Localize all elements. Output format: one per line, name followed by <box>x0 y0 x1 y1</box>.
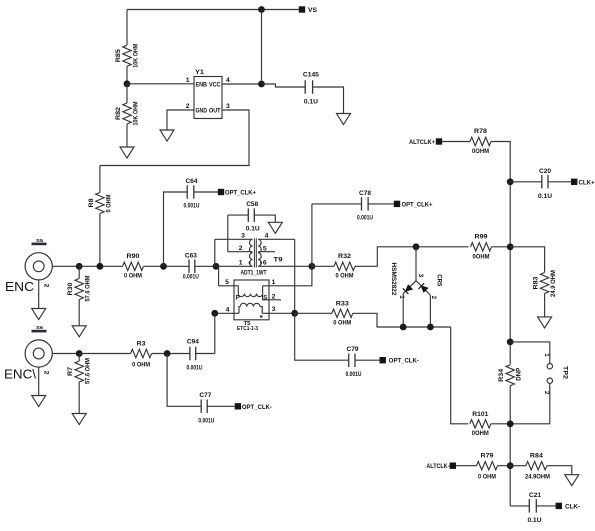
wire to R83 <box>510 247 544 273</box>
svg-text:1: 1 <box>543 353 550 357</box>
svg-text:OPT_CLK-: OPT_CLK- <box>389 358 419 365</box>
wire ENC stem <box>38 280 40 309</box>
svg-text:0 OHM: 0 OHM <box>132 361 150 368</box>
svg-text:R32: R32 <box>338 253 351 260</box>
svg-text:OPT_CLK+: OPT_CLK+ <box>225 190 256 197</box>
svg-text:R83: R83 <box>533 276 540 289</box>
svg-text:C64: C64 <box>186 178 198 185</box>
svg-text:57.6 OHM: 57.6 OHM <box>85 275 92 301</box>
svg-text:1: 1 <box>398 295 405 299</box>
svg-text:R101: R101 <box>472 411 488 418</box>
junction Y1 pin4 <box>258 81 265 88</box>
svg-text:C63: C63 <box>185 252 197 259</box>
svg-text:0 OHM: 0 OHM <box>105 194 112 212</box>
wire C21 riser <box>510 505 529 507</box>
wire R33 to CR5 bottom <box>353 313 451 327</box>
wire C58 left lead <box>228 214 249 216</box>
junction T9 input node <box>213 263 220 270</box>
svg-text:2: 2 <box>43 371 50 375</box>
svg-text:ADT1_1WT: ADT1_1WT <box>241 269 268 276</box>
wire ENC-bar stem <box>38 367 40 395</box>
ground ENC-bar <box>32 396 46 407</box>
svg-text:TP2: TP2 <box>562 366 569 379</box>
capacitor C79 <box>346 346 362 378</box>
ground R7 <box>72 414 86 425</box>
svg-text:C79: C79 <box>347 346 359 353</box>
wire R84 to ground <box>547 466 572 475</box>
svg-text:R7: R7 <box>67 367 74 376</box>
svg-text:C94: C94 <box>187 339 199 346</box>
svg-text:C20: C20 <box>539 168 551 175</box>
connector S5 ENC <box>5 238 52 294</box>
svg-text:2: 2 <box>239 245 243 252</box>
transformer T9 <box>241 238 284 276</box>
svg-text:VCC: VCC <box>209 81 221 88</box>
junction R79 tap <box>507 462 514 469</box>
ground ENC <box>32 309 46 320</box>
resistor R85 <box>115 43 140 67</box>
wire T9 pin3 riser <box>214 239 216 266</box>
pin 3 T5 lead <box>262 306 295 313</box>
svg-text:4: 4 <box>265 233 269 240</box>
svg-text:ENC\: ENC\ <box>4 367 36 382</box>
resistor R7 <box>67 358 92 384</box>
svg-text:0OHM: 0OHM <box>473 253 490 260</box>
svg-text:C58: C58 <box>246 201 258 208</box>
svg-text:R79: R79 <box>481 452 494 459</box>
wire top VS rail <box>127 9 299 11</box>
svg-text:2: 2 <box>430 296 437 300</box>
svg-text:0 OHM: 0 OHM <box>333 320 351 327</box>
oscillator Y1 <box>194 69 222 119</box>
svg-text:0.1U: 0.1U <box>246 226 260 233</box>
resistor R83 <box>533 270 558 297</box>
resistor R101 <box>470 411 491 437</box>
wire C64 riser <box>164 192 188 266</box>
wire R78 to column <box>491 142 510 365</box>
svg-text:0.1U: 0.1U <box>528 517 542 524</box>
junction T5 pin4 <box>211 310 218 317</box>
svg-text:R85: R85 <box>115 49 122 62</box>
wire C78 left lead <box>312 203 362 205</box>
junction C77 tap <box>164 350 171 357</box>
ground R84 <box>565 475 579 486</box>
capacitor C77 <box>198 392 214 424</box>
resistor R33 <box>332 300 353 326</box>
svg-text:0.001U: 0.001U <box>346 371 362 378</box>
svg-text:S6: S6 <box>36 325 44 330</box>
wire column lower <box>509 386 511 506</box>
capacitor C94 <box>187 339 203 372</box>
ground R82 <box>120 147 134 158</box>
terminal OPT_CLK- right <box>380 357 419 365</box>
wire Y1 pin4 node to C145 <box>262 84 306 87</box>
capacitor C63 <box>183 252 199 280</box>
svg-text:Y1: Y1 <box>195 69 204 76</box>
svg-text:24.9OHM: 24.9OHM <box>525 473 550 480</box>
svg-text:0OHM: 0OHM <box>472 430 489 437</box>
svg-text:0.001U: 0.001U <box>357 215 373 222</box>
wire R32 left lead <box>312 265 334 267</box>
svg-text:2: 2 <box>543 391 550 395</box>
pin 2 Y1 <box>186 103 190 110</box>
terminal OPT_CLK+ upper <box>218 189 256 197</box>
wire R8 to main line <box>99 214 101 267</box>
wire C64 to terminal <box>194 191 218 193</box>
wire ALTCLK+ to R78 <box>442 141 470 143</box>
pin 3 T9 lead <box>215 233 253 240</box>
svg-text:1: 1 <box>239 260 243 267</box>
wire R33 left lead <box>295 312 332 314</box>
resistor R30 <box>67 275 92 301</box>
svg-text:ALTCLK+: ALTCLK+ <box>409 139 435 146</box>
wire C20 to terminal <box>548 181 571 183</box>
diode CR5 <box>390 263 442 297</box>
resistor R99 <box>471 233 492 260</box>
junction R101 tap <box>507 420 514 427</box>
svg-text:GND: GND <box>196 107 208 114</box>
svg-text:OPT_CLK+: OPT_CLK+ <box>402 201 433 208</box>
terminal ALTCLK+ <box>409 138 442 146</box>
terminal VS <box>299 6 318 14</box>
wire line2 seg2 <box>152 353 190 355</box>
svg-text:VS: VS <box>308 7 317 14</box>
terminal ALTCLK- <box>426 463 456 471</box>
terminal CLK+ <box>571 179 595 187</box>
wire R79 to column <box>498 465 511 467</box>
svg-text:0.001U: 0.001U <box>198 417 214 424</box>
junction CR5 pin2 bottom <box>427 324 434 331</box>
wire node to Y1 pin1 <box>127 83 194 85</box>
pin 1 CR5 <box>398 295 405 299</box>
svg-text:R99: R99 <box>475 233 488 240</box>
pin 2 T5 <box>272 293 276 300</box>
svg-text:ENB: ENB <box>196 81 208 88</box>
junction R8-main <box>97 263 104 270</box>
terminal CLK- <box>556 503 580 511</box>
terminal OPT_CLK- left <box>235 403 272 411</box>
svg-text:5: 5 <box>263 246 267 253</box>
ground C145 <box>337 114 351 125</box>
junction ENC-bar R7 <box>76 350 83 357</box>
capacitor C145 <box>303 72 319 106</box>
resistor R34 <box>498 365 523 386</box>
junction CR5 top <box>413 243 420 250</box>
wire R99 to column <box>492 246 511 248</box>
ground R83 <box>538 317 552 328</box>
junction C64 riser <box>160 263 167 270</box>
svg-text:C78: C78 <box>359 190 371 197</box>
svg-text:5: 5 <box>225 279 229 286</box>
junction T5 pin3 <box>291 310 298 317</box>
svg-text:3: 3 <box>272 306 276 313</box>
wire ENC to junction <box>52 265 79 267</box>
wire ALTCLK- to R79 <box>456 465 477 467</box>
resistor R32 <box>334 253 355 280</box>
wire Y1 pin3 down-left <box>100 110 249 166</box>
ground Y1 pin2 <box>160 130 174 141</box>
svg-text:R34: R34 <box>498 369 505 382</box>
resistor R79 <box>477 452 498 480</box>
ground R30 <box>72 326 86 337</box>
wire R32 to R99 line <box>355 247 469 266</box>
wire to R8 <box>99 166 101 193</box>
wire C79 riser <box>295 313 349 360</box>
junction top rail <box>258 6 265 13</box>
svg-text:4: 4 <box>226 306 230 313</box>
svg-text:DNP: DNP <box>516 367 523 380</box>
svg-text:R90: R90 <box>127 253 140 260</box>
svg-text:OUT: OUT <box>209 107 221 114</box>
svg-text:P: P <box>236 294 240 301</box>
pin 2 T9 lead <box>228 245 253 252</box>
wire CR5 pin1 drop <box>402 294 404 328</box>
svg-text:4: 4 <box>226 77 230 84</box>
wire R30 top lead <box>78 266 80 278</box>
pin 1 Y1 <box>186 77 190 84</box>
svg-text:10K OHM: 10K OHM <box>133 101 140 125</box>
pin 4 T9 lead <box>258 233 295 240</box>
pin 4 T5 lead <box>215 306 239 313</box>
wire ENC-bar to junction <box>52 353 79 355</box>
junction T9 output node <box>309 263 316 270</box>
svg-text:OPT_CLK-: OPT_CLK- <box>242 404 272 411</box>
pin 3 Y1 <box>226 103 230 110</box>
wire R83 to ground <box>544 294 546 317</box>
pin 6 T9 lead <box>258 260 312 267</box>
wire C21 to terminal <box>536 505 555 507</box>
svg-text:0.001U: 0.001U <box>187 364 203 371</box>
svg-text:ENC: ENC <box>5 279 34 294</box>
svg-text:ETC1-1-3: ETC1-1-3 <box>237 326 258 332</box>
wire R85 bottom lead <box>126 66 128 84</box>
wire R101 to column <box>491 423 510 425</box>
wire T5 pin5 riser <box>218 266 220 286</box>
junction R34 top <box>507 339 514 346</box>
svg-text:0 OHM: 0 OHM <box>478 473 496 480</box>
svg-text:0.1U: 0.1U <box>538 193 552 200</box>
wire C77 riser <box>167 354 201 407</box>
svg-text:2: 2 <box>43 284 50 288</box>
svg-text:0.001U: 0.001U <box>183 274 199 281</box>
svg-text:R82: R82 <box>115 107 122 120</box>
wire Y1 pin4 to node <box>222 83 262 85</box>
wire C94 to T5 riser <box>196 353 215 355</box>
svg-text:3: 3 <box>417 274 424 278</box>
wire R7 to ground <box>78 382 80 414</box>
pin 1 T9 lead <box>216 260 253 267</box>
svg-text:R8: R8 <box>88 198 95 207</box>
svg-text:CLK+: CLK+ <box>579 179 595 186</box>
svg-text:0 OHM: 0 OHM <box>336 273 354 280</box>
pin 1 T5 <box>272 279 276 286</box>
wire C58 riser to pin2 <box>227 215 229 252</box>
wire R85 top lead <box>126 10 128 46</box>
resistor R8 <box>88 193 113 214</box>
svg-text:0.1U: 0.1U <box>304 99 318 106</box>
svg-text:2: 2 <box>272 293 276 300</box>
pin 3 CR5 <box>417 274 424 278</box>
svg-text:C77: C77 <box>199 392 211 399</box>
svg-text:3: 3 <box>226 103 230 110</box>
svg-text:0.001U: 0.001U <box>184 203 200 210</box>
svg-text:24.9 OHM: 24.9 OHM <box>550 270 557 297</box>
terminal OPT_CLK+ right <box>394 201 433 209</box>
wire C20 left lead <box>510 181 542 183</box>
svg-text:0OHM: 0OHM <box>472 148 489 155</box>
wire main line seg1 <box>79 265 122 267</box>
svg-text:R78: R78 <box>474 128 487 135</box>
resistor R90 <box>123 253 144 280</box>
svg-text:HSMS2822: HSMS2822 <box>390 263 397 297</box>
capacitor C58 <box>246 201 260 233</box>
svg-text:R30: R30 <box>67 282 74 295</box>
svg-text:S5: S5 <box>36 238 44 243</box>
svg-text:R84: R84 <box>530 452 543 459</box>
wire VS rail down to Y1 pin4 <box>261 10 263 85</box>
wire node riser to C78 <box>311 204 313 266</box>
svg-text:S: S <box>263 294 267 301</box>
svg-text:0 OHM: 0 OHM <box>124 273 142 280</box>
capacitor C20 <box>538 168 552 200</box>
resistor R84 <box>510 452 550 480</box>
junction ENC-R30 <box>76 263 83 270</box>
pin 4 Y1 <box>226 77 230 84</box>
wire main line seg2 <box>144 265 190 267</box>
junction R85-R82 <box>124 80 131 87</box>
capacitor C78 <box>357 190 373 222</box>
transformer T5 <box>234 280 281 332</box>
wire C79 to terminal <box>355 359 380 361</box>
wire T9 pin4 to T5 pin3 <box>294 239 296 313</box>
svg-text:ALTCLK-: ALTCLK- <box>426 463 449 470</box>
junction C20 tap <box>507 178 514 185</box>
svg-text:1: 1 <box>186 77 190 84</box>
svg-text:T9: T9 <box>274 257 284 264</box>
capacitor C64 <box>184 178 200 210</box>
ground C58 <box>268 222 282 233</box>
wire CR5 riser <box>415 247 417 281</box>
wire C145 to ground <box>313 87 344 114</box>
resistor R78 <box>470 128 491 155</box>
svg-text:2: 2 <box>186 103 190 110</box>
svg-text:10K OHM: 10K OHM <box>133 43 140 67</box>
junction R99 tap <box>507 243 514 250</box>
connector S6 ENC-bar <box>4 325 52 382</box>
svg-text:CR5: CR5 <box>435 274 442 286</box>
pin 2 CR5 <box>430 296 437 300</box>
wire C78 to terminal <box>368 203 394 205</box>
svg-text:3: 3 <box>241 233 245 240</box>
wire node down to T5 pin1 <box>263 266 312 286</box>
pin 5 T9 lead <box>258 246 275 253</box>
svg-text:C145: C145 <box>303 72 319 79</box>
svg-text:R3: R3 <box>137 340 146 347</box>
svg-text:R33: R33 <box>336 300 349 307</box>
svg-text:1: 1 <box>272 279 276 286</box>
wire C63 to T9 node <box>195 265 213 267</box>
wire R7 top lead <box>78 354 80 362</box>
capacitor C21 <box>528 492 542 524</box>
test point TP2 <box>510 342 568 424</box>
wire Y1 pin2 to ground <box>167 110 194 130</box>
resistor R82 <box>115 84 140 126</box>
wire T5 pin4 down to C94 line <box>214 313 216 353</box>
svg-text:C21: C21 <box>529 492 541 499</box>
wire R30 to ground <box>78 300 80 326</box>
resistor R3 <box>131 340 152 368</box>
wire CR5 line down to R101 <box>451 327 469 424</box>
svg-text:6: 6 <box>263 260 267 267</box>
wire CR5 pin2 drop <box>429 295 431 327</box>
junction CR5 pin1 bottom <box>400 324 407 331</box>
wire C77 to terminal <box>207 405 235 407</box>
wire C58 to ground <box>254 215 275 222</box>
wire R82 to ground <box>126 124 128 147</box>
svg-text:57.6 OHM: 57.6 OHM <box>85 358 92 384</box>
wire line2 seg1 <box>79 353 130 355</box>
pin 5 T5 lead <box>219 279 239 286</box>
svg-text:CLK-: CLK- <box>565 503 580 510</box>
